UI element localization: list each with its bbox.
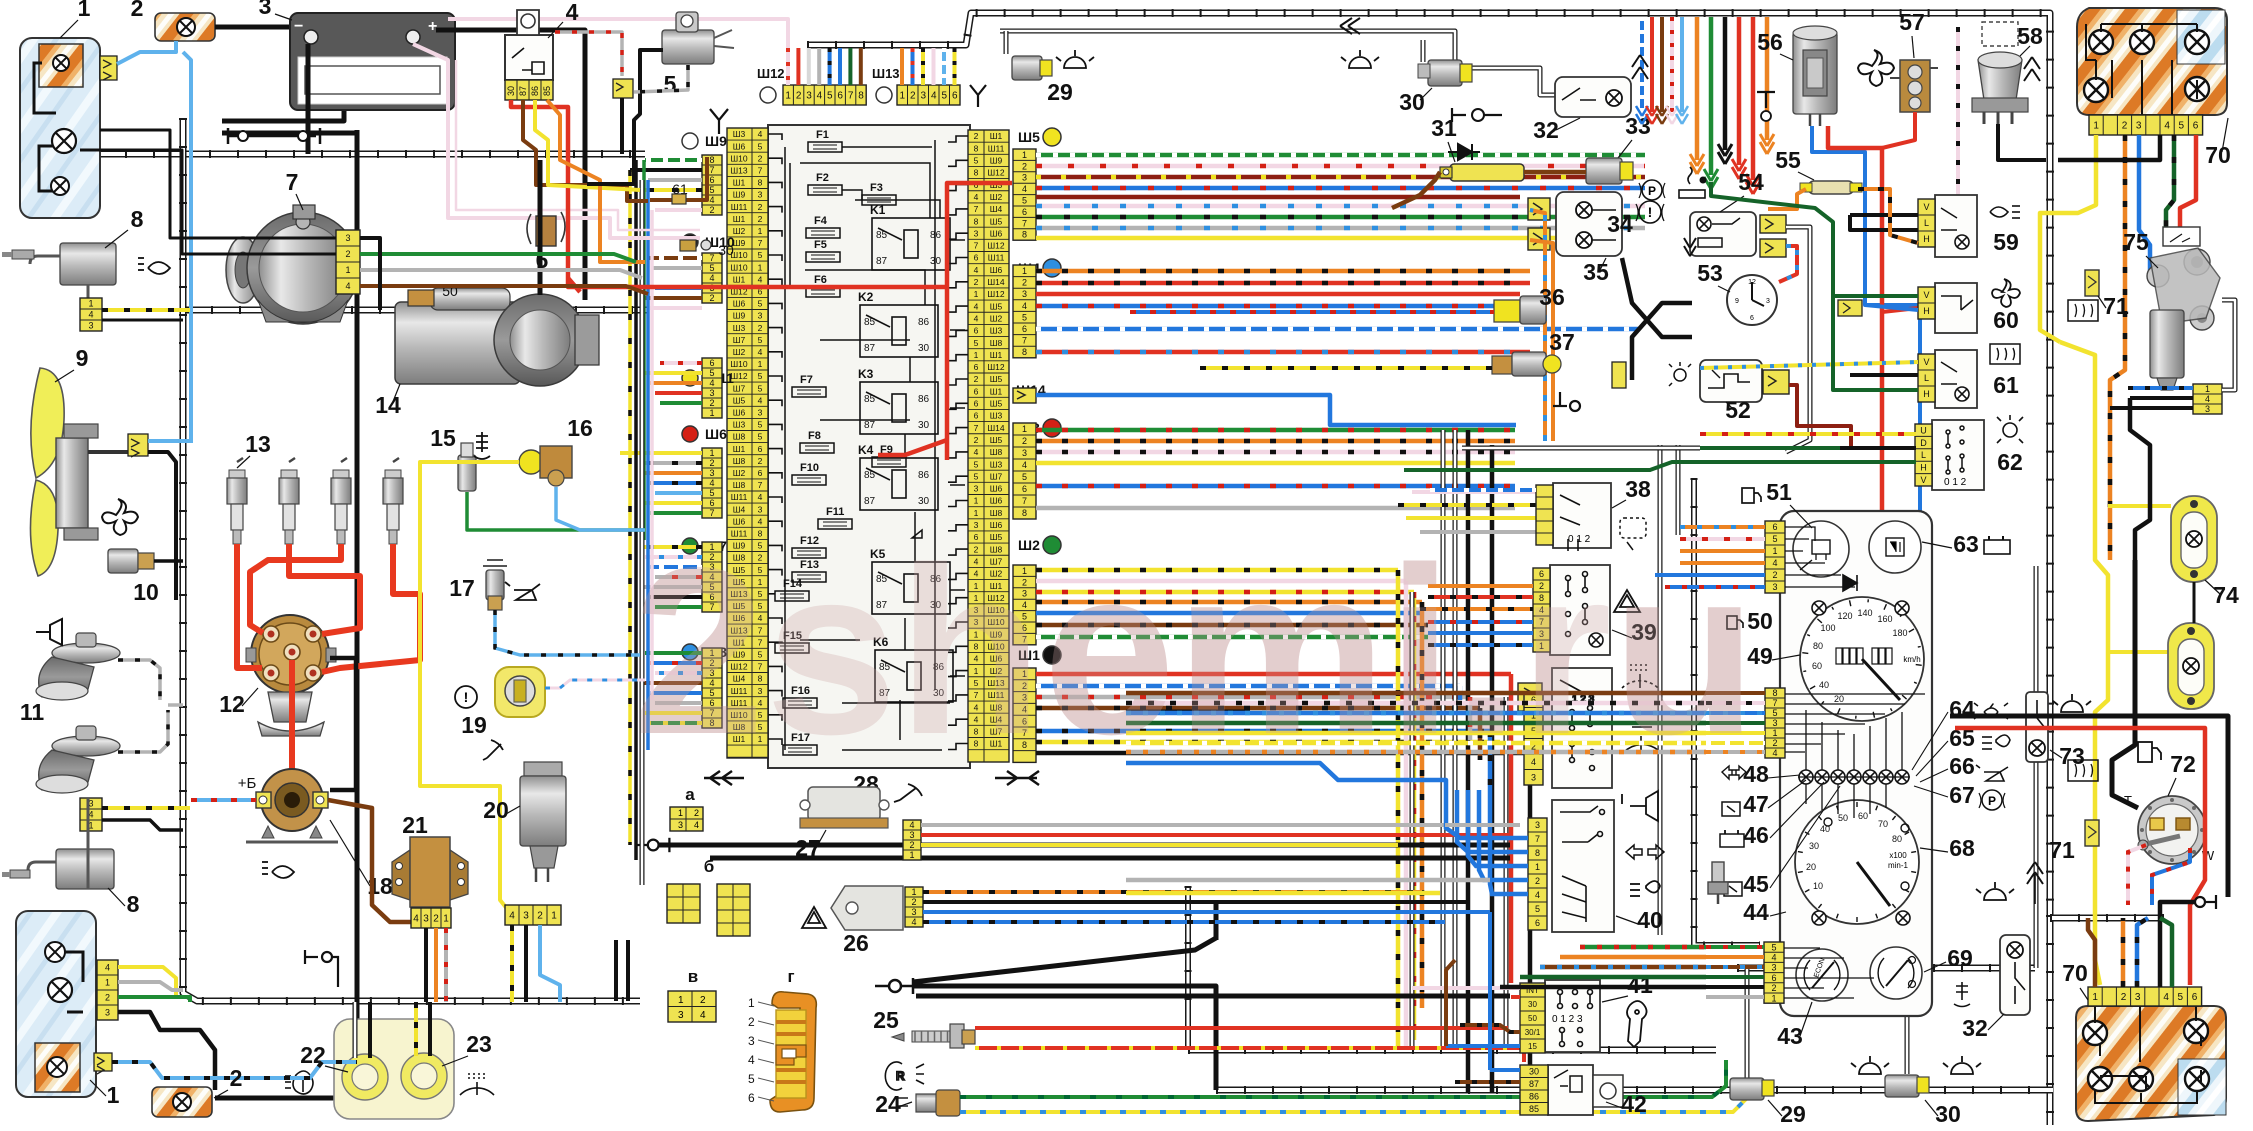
svg-text:8: 8	[858, 91, 864, 102]
svg-text:6: 6	[1022, 207, 1027, 217]
svg-text:5: 5	[974, 338, 979, 348]
wire red into 39 p8	[1428, 595, 1533, 599]
svg-text:2: 2	[709, 398, 714, 408]
svg-text:4: 4	[909, 820, 914, 830]
label 18	[367, 873, 393, 899]
wire bundle cluster feed upper	[1126, 693, 1706, 752]
svg-text:0 1 2: 0 1 2	[1944, 477, 1967, 488]
svg-text:12: 12	[1748, 279, 1756, 286]
svg-text:2: 2	[911, 897, 916, 907]
connector marker Ш4	[1018, 259, 1061, 277]
wire lamp73 to bus	[2034, 762, 2039, 968]
leader 38	[1612, 500, 1626, 508]
svg-text:87: 87	[876, 256, 888, 267]
svg-text:1: 1	[974, 508, 979, 518]
wire yellow-black from 143 strip	[102, 308, 190, 312]
wire thick black mid	[1126, 710, 1250, 715]
svg-text:Ш7: Ш7	[990, 471, 1003, 481]
svg-text:140: 140	[1857, 608, 1872, 618]
wire 56 blue	[1812, 126, 1920, 520]
wire 70b black	[2160, 902, 2196, 987]
leader 70	[2222, 118, 2228, 152]
svg-text:7: 7	[1772, 698, 1777, 708]
cluster gauge econometer (43)	[1796, 949, 1848, 1001]
wire 41 red	[1511, 995, 1520, 999]
label 32t	[1533, 117, 1559, 143]
turn arrows icon near 40	[1626, 845, 1664, 859]
label 9	[76, 345, 89, 371]
wire from 19	[545, 680, 645, 688]
svg-text:5: 5	[827, 91, 833, 102]
connector strip Sh3 pins	[1013, 423, 1036, 519]
wire top blue-dash x1642	[1636, 17, 1648, 124]
svg-text:4: 4	[413, 914, 419, 925]
sun icon 30b	[1943, 1056, 1981, 1074]
svg-text:8: 8	[131, 206, 144, 232]
wire long yellow right	[2060, 342, 2108, 985]
svg-text:85: 85	[864, 317, 876, 328]
connector marker Ш10	[682, 234, 735, 250]
door switch lamp 73	[2026, 692, 2048, 762]
svg-text:Ш14: Ш14	[987, 423, 1005, 433]
wire vertical orange-black	[1420, 602, 1425, 1008]
leader line label 7	[296, 194, 303, 210]
svg-text:Ш11: Ш11	[988, 143, 1005, 153]
ground bar under battery	[228, 128, 320, 144]
leader 43	[1800, 1002, 1812, 1036]
wire middle white tube c	[1504, 697, 1509, 1050]
svg-text:3: 3	[1022, 289, 1027, 299]
wire bundle to Sh7	[640, 547, 702, 607]
connector of 41	[1520, 983, 1545, 1053]
wire into 62 black	[1840, 446, 1916, 450]
svg-text:87: 87	[864, 496, 876, 507]
wire 26 blue a	[923, 910, 1490, 914]
svg-text:5: 5	[758, 420, 763, 430]
wire middle white tube d	[1410, 592, 1415, 1050]
wire HT plug3	[250, 544, 341, 633]
svg-text:10: 10	[133, 579, 159, 605]
cluster gauge fuel (51)	[1793, 521, 1849, 577]
connector Sh14 single	[1013, 388, 1036, 403]
svg-text:4: 4	[974, 301, 979, 311]
sensor 30 top	[1418, 60, 1472, 86]
svg-text:7: 7	[709, 253, 714, 263]
svg-text:Ш3: Ш3	[733, 129, 746, 139]
fan icon near 60	[1992, 279, 2020, 307]
fuel sender 72	[2138, 796, 2206, 864]
svg-text:7: 7	[1022, 218, 1027, 228]
wire HT plug1	[237, 544, 262, 668]
svg-text:6: 6	[1022, 484, 1027, 494]
wire 52 brown	[1789, 385, 1851, 448]
svg-text:x100: x100	[1889, 851, 1907, 860]
horn 11b	[36, 726, 120, 793]
svg-text:6: 6	[974, 386, 979, 396]
svg-text:H: H	[1923, 389, 1930, 399]
wire lamp1b blue dash	[112, 1062, 357, 1078]
svg-text:Ш2: Ш2	[990, 192, 1003, 202]
svg-text:35: 35	[1583, 259, 1609, 285]
wire tr green	[1704, 17, 1718, 189]
connector of lamp 1b	[97, 960, 118, 1020]
alternator terminal 61	[672, 194, 686, 204]
wire black fan a	[913, 938, 1216, 982]
fog lamp icon near 8	[138, 258, 170, 274]
wire bottom-right lamps bus	[1737, 965, 2035, 972]
immobilizer 19	[495, 667, 545, 717]
wire lamp1b black	[118, 1012, 215, 1090]
svg-text:R: R	[896, 1069, 905, 1083]
fan 9	[30, 368, 128, 576]
pull switch symbol	[1452, 108, 1502, 122]
svg-text:Ш8: Ш8	[733, 480, 746, 490]
svg-text:3: 3	[678, 1010, 684, 1021]
svg-text:5: 5	[1535, 904, 1540, 914]
wire 27 yellow	[921, 843, 1398, 847]
label 62	[1997, 449, 2023, 475]
oil pressure sensor 17	[483, 560, 507, 610]
wire pump20 black down	[524, 925, 528, 1002]
svg-text:60: 60	[1858, 811, 1868, 821]
svg-text:29: 29	[1780, 1101, 1806, 1127]
svg-text:4: 4	[758, 395, 763, 405]
wire horn a gray	[118, 660, 160, 700]
svg-text:Ш11: Ш11	[731, 492, 748, 502]
svg-text:74: 74	[2213, 582, 2239, 608]
svg-text:7: 7	[974, 423, 979, 433]
fuel icon near 50	[1727, 616, 1743, 629]
label 46	[1743, 822, 1769, 848]
fuse 55 body	[1800, 181, 1862, 194]
hazard icon near 39	[1614, 590, 1640, 612]
svg-text:Ш12: Ш12	[987, 362, 1005, 372]
svg-text:30: 30	[506, 86, 516, 96]
fuse box label 28	[853, 771, 879, 797]
svg-text:8: 8	[1022, 508, 1027, 518]
svg-text:5: 5	[1022, 196, 1027, 206]
svg-text:3: 3	[2205, 404, 2210, 414]
label 67	[1949, 782, 1975, 808]
svg-text:21: 21	[402, 812, 428, 838]
svg-text:Ш6: Ш6	[990, 484, 1003, 494]
svg-text:Ш1: Ш1	[733, 444, 746, 454]
svg-text:Ш14: Ш14	[987, 277, 1005, 287]
svg-text:34: 34	[1607, 211, 1633, 237]
svg-text:7: 7	[1535, 834, 1540, 844]
svg-text:2: 2	[758, 153, 763, 163]
wire 70b blue	[2137, 918, 2148, 987]
label 70	[2205, 142, 2231, 168]
svg-text:40: 40	[1637, 907, 1663, 933]
svg-text:2: 2	[758, 323, 763, 333]
leader 73	[2050, 750, 2062, 758]
svg-text:2: 2	[2122, 121, 2128, 132]
svg-text:1: 1	[974, 289, 979, 299]
label 48	[1743, 761, 1769, 787]
wire red stub into 60	[1882, 308, 1918, 312]
connector strip Sh2 pins	[1013, 565, 1036, 645]
watermark 2shemi.ru	[633, 519, 1757, 784]
svg-text:1: 1	[78, 0, 91, 21]
leader 54	[1720, 196, 1744, 212]
connector 2cell of lamp 1b	[94, 1053, 112, 1074]
svg-text:1: 1	[785, 91, 791, 102]
wire bundle from Sh4	[1036, 271, 1640, 352]
connector a grid	[678, 807, 699, 831]
label 45	[1743, 871, 1769, 897]
svg-text:в: в	[688, 967, 698, 986]
label +B small	[238, 775, 257, 792]
wire black comp1 pin3	[360, 238, 380, 310]
wire 56 red	[1828, 126, 1882, 518]
svg-text:Ш6: Ш6	[733, 299, 746, 309]
svg-text:13: 13	[245, 431, 271, 457]
leader line label 14	[392, 384, 400, 404]
wire 70b green	[2160, 918, 2172, 987]
label 30b	[1935, 1101, 1961, 1127]
connector of 26	[905, 887, 923, 927]
resistor 57	[1890, 60, 1938, 112]
label 39	[1631, 619, 1657, 645]
wire into 62 green	[1700, 446, 1840, 450]
wire switch32b drop	[2012, 968, 2017, 1012]
svg-text:7: 7	[286, 169, 299, 195]
svg-text:1: 1	[1022, 424, 1027, 434]
wire sensor15 green	[467, 492, 644, 530]
sensor 37	[1492, 352, 1561, 376]
svg-text:4: 4	[694, 820, 699, 830]
leader 31	[1448, 142, 1455, 162]
wire yellow to 37	[1200, 366, 1492, 370]
wire 75 black b	[2110, 406, 2193, 410]
svg-text:Ш5: Ш5	[990, 301, 1003, 311]
svg-text:Ш6: Ш6	[733, 408, 746, 418]
svg-text:5: 5	[1772, 708, 1777, 718]
label a	[685, 785, 695, 804]
wire cluster left harness	[1694, 478, 1760, 945]
wire tr orange	[1690, 17, 1704, 174]
wire black vertical x628	[626, 940, 630, 1001]
connector of bottom 70	[2088, 987, 2202, 1006]
svg-text:6: 6	[2192, 992, 2198, 1003]
wire lamp1b gray	[118, 982, 183, 990]
label 36	[1539, 284, 1565, 310]
capacitor 6	[527, 212, 565, 246]
svg-text:H: H	[1920, 463, 1927, 473]
arrow marks x1640	[1632, 55, 1648, 79]
wire blue fan to vertical	[148, 439, 191, 443]
svg-text:1: 1	[1771, 993, 1776, 1003]
icon rect near 75	[2163, 227, 2200, 246]
svg-text:30: 30	[918, 343, 930, 354]
warning triangle near 26	[802, 907, 826, 928]
svg-text:3: 3	[974, 484, 979, 494]
wire orange to 34b	[1530, 240, 1553, 441]
svg-text:85: 85	[864, 470, 876, 481]
svg-text:61: 61	[1993, 372, 2019, 398]
wire comp1 inner links	[100, 130, 336, 238]
svg-text:5: 5	[758, 371, 763, 381]
svg-text:42: 42	[1621, 1091, 1647, 1117]
svg-text:min-1: min-1	[1888, 861, 1909, 870]
svg-text:1: 1	[709, 448, 714, 458]
connector marker Ш5	[1018, 128, 1061, 146]
svg-text:Ш9: Ш9	[733, 190, 746, 200]
svg-text:20: 20	[483, 797, 509, 823]
svg-text:P: P	[1988, 794, 1996, 808]
sun icon b	[1341, 50, 1379, 68]
wire blue-red to coil	[191, 798, 256, 802]
connector of 42	[1520, 1065, 1548, 1115]
svg-text:5: 5	[758, 141, 763, 151]
svg-text:Ш8: Ш8	[733, 432, 746, 442]
tail lamp block 70 (bottom-right)	[2076, 1002, 2226, 1121]
switch 32 bottom	[2000, 935, 2030, 1015]
label 1	[78, 0, 91, 21]
label 25	[873, 1007, 899, 1033]
fog icon near 8b	[262, 862, 294, 878]
label 8	[131, 206, 144, 232]
svg-text:5: 5	[1772, 534, 1777, 544]
svg-text:5: 5	[758, 432, 763, 442]
svg-text:7: 7	[974, 241, 979, 251]
ground fan bottom center	[875, 978, 913, 994]
svg-text:7: 7	[709, 165, 714, 175]
svg-text:3: 3	[88, 321, 93, 331]
svg-text:Ш5: Ш5	[990, 435, 1003, 445]
svg-text:1: 1	[88, 299, 93, 309]
heater element g	[748, 992, 816, 1112]
connector 341 strip bottom	[80, 798, 102, 831]
wire 27 red	[921, 833, 1510, 837]
svg-text:Ш6: Ш6	[733, 141, 746, 151]
wire between 74s	[2193, 582, 2196, 623]
starter 14	[395, 288, 599, 386]
label 35	[1583, 259, 1609, 285]
svg-text:3: 3	[259, 0, 272, 19]
wire lamp73 feed	[2034, 566, 2039, 692]
wire HT coil to distributor	[289, 660, 295, 792]
label 43	[1777, 1023, 1803, 1049]
wire black fan b	[913, 986, 1216, 1090]
leader 40	[1616, 916, 1638, 924]
leader 1b	[90, 1080, 106, 1096]
connector strip Sh9 pins	[702, 155, 722, 215]
canister 8 (bottom)	[2, 849, 114, 889]
svg-text:87: 87	[1529, 1079, 1539, 1089]
wire bundle from Sh3	[1036, 430, 1515, 508]
label 33	[1625, 113, 1651, 139]
wire blue into 39 p7	[1428, 620, 1533, 624]
svg-text:80: 80	[1892, 834, 1902, 844]
fan icon near 9	[102, 499, 138, 535]
label 10	[133, 579, 159, 605]
connector of 75	[2193, 384, 2222, 414]
wire left vertical trunk	[183, 118, 640, 1001]
svg-text:51: 51	[1766, 479, 1792, 505]
svg-text:25: 25	[873, 1007, 899, 1033]
svg-text:5: 5	[974, 156, 979, 166]
wire 70t red	[2180, 135, 2196, 240]
connector Sh13	[897, 85, 960, 105]
wire into 61 black	[1850, 373, 1918, 377]
leader 35	[1600, 258, 1606, 270]
svg-text:F4: F4	[814, 215, 828, 227]
wire 42 blue	[1490, 1068, 1520, 1072]
svg-text:4: 4	[1535, 890, 1540, 900]
wire 54 red-dash	[1779, 246, 1797, 282]
svg-text:8: 8	[127, 891, 140, 917]
svg-text:2: 2	[345, 249, 350, 259]
label 50c	[1747, 608, 1773, 634]
wire 75 black down	[2130, 398, 2150, 560]
wire vertical blue-white	[1458, 686, 1463, 700]
wire yellow from relay4	[535, 100, 640, 190]
battery 3	[290, 13, 455, 110]
wire left harness horizontal y310	[183, 307, 648, 314]
cluster diode	[1843, 575, 1857, 591]
svg-text:а: а	[685, 785, 695, 804]
svg-text:2: 2	[758, 214, 763, 224]
wire into 59 black	[1850, 213, 1918, 217]
svg-text:3: 3	[2135, 992, 2141, 1003]
svg-text:86: 86	[530, 86, 540, 96]
wires into cluster mid strip	[1706, 693, 1765, 752]
svg-text:Ш2: Ш2	[733, 226, 746, 236]
wire tube to switches	[1658, 445, 1663, 935]
leader 42	[1606, 1102, 1622, 1108]
wire 41 blue	[1446, 1044, 1520, 1048]
connector b1	[667, 884, 700, 923]
leader 69	[1924, 962, 1946, 972]
courtesy lamp 74a	[2171, 496, 2217, 582]
label 13	[245, 431, 271, 457]
svg-text:32: 32	[1962, 1015, 1988, 1041]
leader 63	[1922, 542, 1952, 548]
svg-text:3: 3	[909, 830, 914, 840]
label g	[787, 967, 794, 986]
svg-text:Ш4: Ш4	[990, 204, 1003, 214]
svg-text:7: 7	[974, 204, 979, 214]
svg-text:8: 8	[974, 216, 979, 226]
svg-text:2: 2	[758, 456, 763, 466]
svg-text:K1: K1	[870, 203, 886, 217]
ground right	[2195, 895, 2216, 909]
connector strip Sh10 pins	[702, 253, 722, 303]
svg-text:F2: F2	[816, 172, 829, 184]
connector 52r	[1763, 370, 1789, 394]
svg-text:2: 2	[1772, 738, 1777, 748]
svg-text:4: 4	[758, 274, 763, 284]
svg-text:27: 27	[795, 835, 821, 861]
svg-text:8: 8	[1022, 347, 1027, 357]
connector marker Ш6	[682, 426, 727, 442]
svg-text:5: 5	[2179, 121, 2185, 132]
wire 26 black	[923, 900, 1468, 904]
svg-text:1: 1	[899, 91, 905, 102]
label 23	[466, 1031, 492, 1057]
svg-text:50: 50	[1528, 1014, 1537, 1023]
svg-text:3: 3	[758, 408, 763, 418]
relay 42 box	[1548, 1065, 1593, 1115]
svg-text:30: 30	[918, 496, 930, 507]
wire 26 blue b	[923, 920, 1445, 924]
connector strip Sh5 pins	[1013, 149, 1036, 240]
sun icon 32b	[1976, 882, 2014, 900]
svg-text:Ш5: Ш5	[733, 395, 746, 405]
wire vertical gray-red	[1468, 697, 1473, 740]
